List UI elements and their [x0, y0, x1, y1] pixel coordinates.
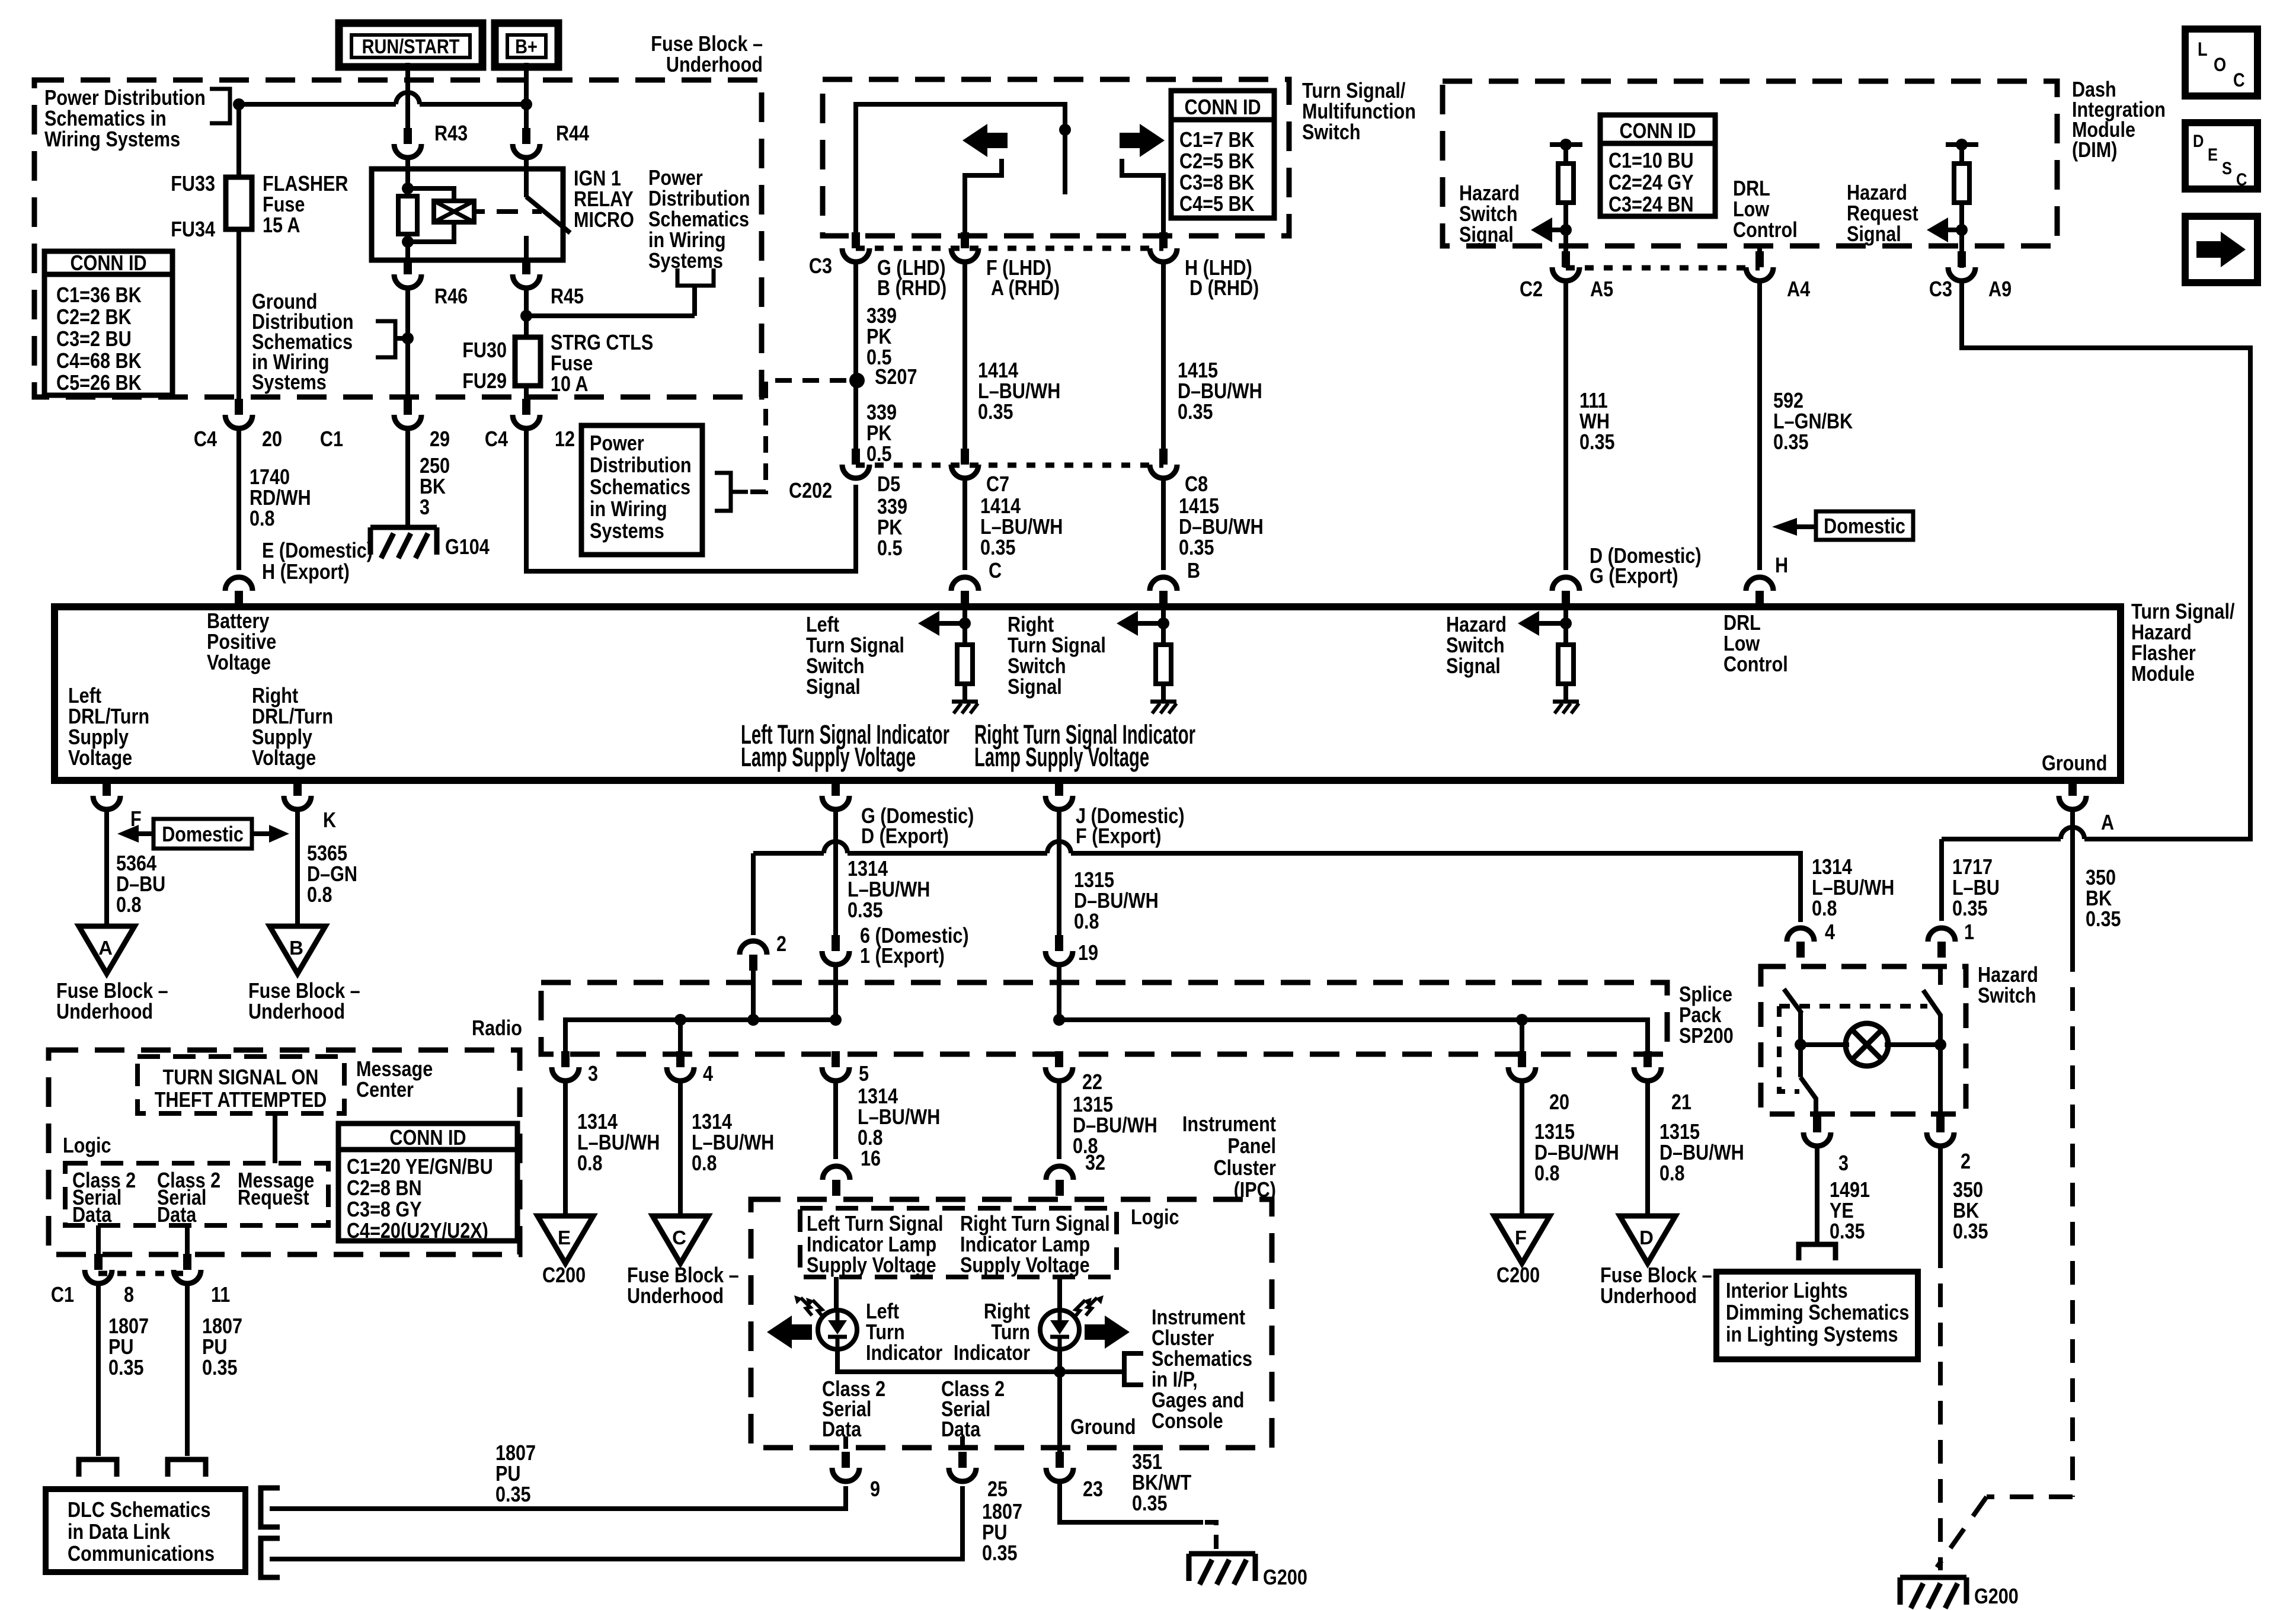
node relay coil top: [402, 183, 414, 194]
svg-text:19: 19: [1078, 942, 1098, 965]
svg-text:0.35: 0.35: [495, 1483, 531, 1507]
svg-text:BK: BK: [420, 475, 446, 499]
svg-text:Underhood: Underhood: [666, 53, 763, 77]
conn id table fuse block: [44, 251, 172, 395]
svg-text:Console: Console: [1152, 1410, 1223, 1433]
svg-text:C4=68 BK: C4=68 BK: [56, 350, 142, 373]
svg-text:PK: PK: [866, 422, 891, 446]
dotted connector row C3: [856, 246, 1163, 251]
svg-text:C200: C200: [542, 1264, 586, 1288]
relay coil box-X symbol: [434, 201, 474, 222]
svg-text:Domestic: Domestic: [1824, 515, 1905, 539]
svg-text:0.35: 0.35: [1132, 1492, 1168, 1516]
turn signal hazard flasher module box: [55, 607, 2121, 780]
svg-text:DRL/Turn: DRL/Turn: [68, 705, 149, 729]
svg-text:Fuse Block –: Fuse Block –: [1600, 1264, 1712, 1288]
svg-text:Left: Left: [866, 1300, 899, 1324]
connector module pin E: [225, 577, 252, 591]
arrow right turn switch signal: [1117, 611, 1138, 636]
svg-text:D–GN: D–GN: [307, 863, 357, 886]
svg-text:B (RHD): B (RHD): [877, 277, 946, 300]
svg-text:Right: Right: [252, 684, 298, 708]
connector hazard pin 2: [1927, 1132, 1954, 1146]
svg-text:250: 250: [420, 454, 450, 478]
svg-text:C1=20 YE/GN/BU: C1=20 YE/GN/BU: [347, 1156, 493, 1179]
svg-text:D–BU/WH: D–BU/WH: [1659, 1141, 1744, 1165]
arrow left turn indicator: [767, 1315, 792, 1349]
wire conn2 drop: [751, 853, 756, 935]
svg-text:Voltage: Voltage: [68, 747, 132, 770]
svg-text:Schematics: Schematics: [648, 208, 749, 232]
wire DIM A4 stub: [1757, 246, 1762, 254]
triangle connector A: [79, 926, 135, 974]
svg-text:0.35: 0.35: [1773, 431, 1809, 454]
hazard switch left pole lower blade: [1801, 1077, 1816, 1099]
svg-text:MICRO: MICRO: [574, 209, 634, 232]
connector radio C1 pin 8: [85, 1270, 112, 1283]
LED left turn indicator: [818, 1310, 857, 1349]
ground module pin B: [1150, 700, 1176, 704]
bracket instrument cluster schematics: [1124, 1353, 1143, 1385]
node B+ junction: [520, 98, 532, 110]
wire 350 BK module pin A: [2070, 807, 2075, 948]
connector splice pack 20: [1508, 1067, 1536, 1081]
wire resistor to A5: [1563, 203, 1568, 268]
svg-text:20: 20: [1549, 1091, 1569, 1115]
svg-text:22: 22: [1082, 1071, 1102, 1094]
radio logic dashed box: [65, 1163, 328, 1225]
inline plug pin8: [79, 1459, 117, 1477]
right turn contact: [1122, 159, 1163, 236]
svg-text:1 (Export): 1 (Export): [860, 945, 945, 968]
svg-text:0.35: 0.35: [202, 1356, 238, 1380]
svg-text:Systems: Systems: [590, 520, 664, 543]
wire flasher fuse feed down: [236, 104, 241, 178]
svg-text:339: 339: [877, 495, 907, 519]
svg-text:3: 3: [420, 496, 430, 520]
svg-text:G104: G104: [445, 536, 490, 559]
wire R43 to relay: [405, 155, 410, 172]
hazard switch left pole upper blade: [1784, 989, 1802, 1013]
triangle connector B: [270, 926, 325, 974]
conn id table radio: [338, 1124, 517, 1241]
connector module pin G: [822, 796, 849, 809]
svg-text:C8: C8: [1185, 473, 1208, 497]
svg-text:0.5: 0.5: [877, 537, 903, 561]
svg-text:FU30: FU30: [462, 339, 507, 363]
svg-text:D5: D5: [877, 473, 900, 497]
svg-text:C200: C200: [1496, 1264, 1540, 1288]
svg-text:C7: C7: [986, 473, 1009, 497]
triangle connector E: [538, 1216, 593, 1263]
svg-text:Instrument: Instrument: [1182, 1113, 1276, 1137]
bracket power distribution reference: [715, 473, 731, 511]
svg-text:4: 4: [703, 1062, 713, 1086]
connector pin 29 fuse block: [394, 415, 421, 428]
connector C3 pin G: [842, 248, 869, 262]
svg-text:Switch: Switch: [1008, 655, 1066, 678]
svg-text:1414: 1414: [980, 495, 1021, 518]
node relay coil bottom: [402, 236, 414, 248]
svg-text:C4: C4: [485, 428, 508, 452]
svg-text:Turn Signal/: Turn Signal/: [2131, 600, 2234, 624]
svg-text:Positive: Positive: [207, 630, 276, 654]
dashed link to C202: [750, 380, 856, 492]
ground module pin D: [1553, 700, 1579, 704]
svg-text:0.8: 0.8: [858, 1126, 883, 1150]
wire hazard pin2 to G200: [1938, 1144, 1943, 1244]
svg-text:H: H: [1775, 554, 1788, 578]
svg-text:1807: 1807: [108, 1315, 149, 1339]
svg-text:C2=24 GY: C2=24 GY: [1609, 171, 1694, 195]
hazard switch left pole wire: [1798, 1012, 1803, 1077]
svg-text:IGN 1: IGN 1: [574, 167, 621, 191]
right turn arrow: [1140, 124, 1165, 157]
conn id table multifunction switch: [1171, 91, 1274, 218]
svg-text:STRG CTLS: STRG CTLS: [551, 331, 653, 355]
bracket to power distribution note: [210, 89, 230, 123]
wire IPC 32 to LED: [1057, 1277, 1062, 1310]
svg-text:D–BU/WH: D–BU/WH: [1179, 516, 1264, 539]
wire B+ down to R44: [524, 63, 529, 137]
module pin D internals: [1563, 607, 1568, 645]
svg-text:BK: BK: [1953, 1199, 1979, 1223]
wire pullup2 to resistor: [1959, 145, 1964, 164]
svg-text:in Lighting Systems: in Lighting Systems: [1726, 1323, 1898, 1347]
wire 19 to splice bus: [1057, 962, 1061, 1020]
svg-text:2: 2: [1961, 1150, 1971, 1174]
relay switch common: [524, 172, 529, 197]
svg-text:C2=5 BK: C2=5 BK: [1179, 150, 1255, 174]
svg-text:Signal: Signal: [1847, 223, 1901, 247]
svg-text:B+: B+: [515, 35, 538, 58]
svg-text:PK: PK: [866, 325, 891, 349]
wire 592 L-GN/BK A4 to module H: [1757, 279, 1762, 570]
label Domestic callout (left): [154, 819, 252, 849]
svg-text:C2: C2: [1520, 278, 1543, 302]
svg-text:C1: C1: [320, 428, 343, 452]
resistor hazard request signal: [1954, 164, 1969, 203]
wire conn2 to bus: [751, 971, 756, 1020]
node bus tap conn20: [1516, 1014, 1528, 1026]
svg-text:Hazard: Hazard: [1978, 964, 2038, 987]
connector IPC pin 32: [1046, 1166, 1073, 1180]
wire IPC pin9 stub: [843, 1436, 848, 1449]
svg-text:D: D: [1639, 1227, 1654, 1249]
connector splice pack 5: [822, 1067, 849, 1081]
node bus end pin G wire: [830, 1014, 842, 1026]
svg-text:Communications: Communications: [68, 1542, 215, 1566]
svg-text:0.35: 0.35: [1178, 401, 1213, 424]
svg-text:1415: 1415: [1179, 495, 1219, 518]
left turn contact: [965, 159, 1002, 236]
relay switch blade: [526, 197, 570, 233]
svg-text:in I/P,: in I/P,: [1152, 1368, 1198, 1392]
svg-text:0.35: 0.35: [982, 1542, 1018, 1566]
connector splice pack 22: [1045, 1067, 1073, 1081]
wire relay coil loop: [408, 188, 454, 201]
wire pin8 down: [96, 1281, 101, 1456]
connector R44: [513, 144, 540, 158]
wire conn22 to IPC32: [1057, 1078, 1061, 1159]
svg-text:350: 350: [2086, 866, 2116, 890]
svg-text:Turn: Turn: [866, 1321, 905, 1345]
connector C202 pin C8: [1150, 465, 1177, 478]
resistor module pin D: [1558, 645, 1574, 684]
connector splice pack 21: [1634, 1067, 1661, 1081]
node bus tap conn4: [674, 1014, 686, 1026]
connector C202 pin D5: [842, 465, 869, 478]
svg-text:R45: R45: [551, 285, 584, 309]
svg-text:1315: 1315: [1073, 1093, 1113, 1117]
svg-text:9: 9: [870, 1478, 880, 1502]
svg-text:L–BU/WH: L–BU/WH: [692, 1131, 774, 1155]
connector IPC pin 16: [823, 1166, 850, 1180]
svg-text:C202: C202: [789, 479, 832, 503]
svg-text:32: 32: [1085, 1151, 1105, 1175]
svg-text:L: L: [2198, 39, 2208, 60]
svg-text:Multifunction: Multifunction: [1302, 100, 1416, 124]
svg-text:Fuse: Fuse: [551, 352, 593, 376]
power distribution schematics reference box: [581, 425, 702, 555]
connector splice pack 2: [740, 941, 767, 955]
svg-text:0.35: 0.35: [980, 536, 1016, 560]
wire hazard pin3 down: [1815, 1144, 1819, 1243]
svg-text:11: 11: [211, 1283, 230, 1307]
connector radio C1 pin 11: [174, 1270, 201, 1283]
svg-text:TURN SIGNAL ON: TURN SIGNAL ON: [163, 1066, 319, 1090]
svg-text:Switch: Switch: [1978, 984, 2036, 1008]
svg-text:Lamp Supply Voltage: Lamp Supply Voltage: [974, 743, 1149, 773]
wire 1415 to module pin B: [1161, 476, 1166, 570]
svg-text:Dimming Schematics: Dimming Schematics: [1726, 1301, 1909, 1325]
ipc supply voltage inner dashed box: [800, 1208, 1117, 1277]
wire radio pin8: [96, 1225, 101, 1256]
svg-text:D–BU/WH: D–BU/WH: [1074, 889, 1159, 913]
hazard switch left pole exit: [1814, 1097, 1818, 1117]
svg-text:Message: Message: [356, 1058, 433, 1081]
wire pullup to resistor: [1563, 145, 1568, 164]
svg-text:Turn Signal: Turn Signal: [806, 634, 904, 658]
svg-text:1314: 1314: [577, 1110, 618, 1134]
svg-text:20: 20: [262, 428, 282, 452]
module pin B internals: [1161, 607, 1166, 645]
node hazard request tap: [1956, 224, 1968, 236]
triangle connector F: [1494, 1216, 1550, 1263]
svg-text:L–BU/WH: L–BU/WH: [858, 1106, 940, 1129]
wire conn21 to triangle D: [1645, 1078, 1650, 1216]
svg-text:L–BU/WH: L–BU/WH: [980, 516, 1063, 539]
svg-text:C: C: [2236, 169, 2247, 189]
svg-text:C1: C1: [51, 1283, 74, 1307]
svg-text:Interior Lights: Interior Lights: [1726, 1279, 1848, 1303]
svg-text:Fuse Block –: Fuse Block –: [248, 980, 360, 1003]
connector DIM A4: [1746, 267, 1773, 281]
svg-text:A: A: [98, 937, 113, 959]
svg-text:L–BU/WH: L–BU/WH: [978, 380, 1060, 404]
node turn switch blade pivot: [1059, 124, 1071, 136]
wire 1740 RD/WH to module pin E: [236, 426, 241, 570]
svg-text:Control: Control: [1733, 219, 1798, 242]
svg-text:Distribution: Distribution: [590, 454, 692, 478]
svg-text:2: 2: [776, 933, 786, 956]
svg-text:1314: 1314: [858, 1085, 898, 1109]
svg-text:0.8: 0.8: [1534, 1162, 1560, 1186]
svg-text:Battery: Battery: [207, 610, 270, 633]
inline plug hazard pin3: [1799, 1244, 1835, 1260]
turn signal multifunction switch dashed box: [823, 79, 1289, 236]
svg-text:PU: PU: [202, 1336, 227, 1359]
svg-text:C2=8 BN: C2=8 BN: [347, 1177, 422, 1201]
svg-text:C: C: [672, 1227, 686, 1249]
connector IPC pin 25: [949, 1468, 976, 1481]
svg-text:Domestic: Domestic: [162, 823, 244, 847]
bracket DLC lower: [261, 1538, 280, 1577]
instrument panel cluster dashed box: [751, 1199, 1272, 1448]
svg-text:L–BU/WH: L–BU/WH: [848, 878, 930, 902]
svg-text:R44: R44: [556, 122, 589, 146]
wire 111 WH A5 to module D: [1563, 279, 1568, 570]
svg-text:Switch: Switch: [1446, 634, 1505, 658]
ground module pin C: [952, 700, 978, 704]
bracket under power distribution note (right col): [677, 268, 714, 286]
wire resistor2 to A9: [1959, 203, 1964, 268]
svg-text:Indicator: Indicator: [866, 1342, 942, 1365]
wire 1414 upper: [962, 260, 967, 450]
ground G200 (IPC): [1189, 1551, 1255, 1557]
svg-text:S207: S207: [875, 366, 917, 389]
svg-text:0.8: 0.8: [116, 894, 142, 917]
resistor hazard switch signal: [1558, 164, 1574, 203]
svg-text:15 A: 15 A: [263, 214, 300, 238]
inline plug pin11: [168, 1459, 206, 1477]
LED right turn indicator: [1040, 1310, 1079, 1349]
connector module pin A: [2059, 796, 2086, 809]
wire conn20 to triangle F: [1520, 1078, 1524, 1216]
node splice at flasher feed: [233, 98, 245, 110]
svg-text:C3: C3: [809, 255, 832, 279]
svg-text:Schematics: Schematics: [590, 476, 690, 500]
svg-text:Right: Right: [984, 1300, 1030, 1324]
dash integration module dashed box: [1443, 81, 2057, 246]
right-arrow box: [2185, 216, 2257, 283]
connector module pin B: [1150, 577, 1177, 591]
svg-text:Supply Voltage: Supply Voltage: [960, 1254, 1090, 1278]
fuse FU33/FU34 FLASHER 15A: [226, 177, 252, 229]
svg-text:F: F: [1515, 1227, 1527, 1249]
wire R45 tap to bracket: [526, 313, 695, 318]
dotted connector row C2 DIM: [1566, 265, 1760, 271]
ground G200 (right): [1900, 1575, 1966, 1580]
wire conn5 to IPC16: [833, 1078, 838, 1159]
arrow right turn indicator: [1105, 1315, 1130, 1349]
svg-text:PU: PU: [495, 1462, 520, 1486]
B+ battery feed box: [495, 23, 558, 67]
connector hazard pin 4: [1787, 928, 1814, 942]
svg-text:1740: 1740: [250, 466, 290, 489]
node hazard lamp left: [1795, 1039, 1806, 1051]
wire pin12 to C202 D5: [526, 426, 856, 571]
svg-text:0.8: 0.8: [1659, 1162, 1685, 1186]
hazard switch dashed box: [1761, 966, 1966, 1114]
wire A9 to hazard pin1 run: [1962, 279, 2250, 839]
wire conn3 to triangle E: [563, 1078, 568, 1216]
svg-text:12: 12: [555, 428, 575, 452]
wire pin J down: [1057, 807, 1061, 941]
splice pack SP200 dashed box: [541, 982, 1667, 1054]
svg-text:Hazard: Hazard: [1459, 182, 1520, 206]
svg-text:Supply: Supply: [252, 726, 312, 750]
svg-text:Cluster: Cluster: [1214, 1157, 1276, 1180]
svg-text:0.35: 0.35: [848, 899, 883, 923]
connector C202 pin C7: [951, 465, 978, 478]
wire 5364 to fuse block A: [104, 807, 109, 926]
conn id table DIM: [1600, 115, 1715, 216]
svg-text:3: 3: [588, 1062, 598, 1086]
svg-text:Radio: Radio: [472, 1017, 522, 1041]
svg-text:Panel: Panel: [1227, 1135, 1276, 1158]
wire radio pin11: [185, 1225, 190, 1256]
svg-text:Supply Voltage: Supply Voltage: [807, 1254, 936, 1278]
svg-text:Lamp Supply Voltage: Lamp Supply Voltage: [741, 743, 916, 773]
wire message request: [273, 1113, 277, 1163]
wire IPC pin25 stub: [960, 1436, 965, 1449]
wire 5365 to fuse block B: [295, 807, 300, 926]
svg-text:B: B: [1187, 559, 1200, 583]
connector R46: [394, 274, 421, 288]
wire bus to conn4: [678, 1020, 683, 1052]
svg-text:DRL: DRL: [1723, 612, 1761, 635]
svg-text:O: O: [2214, 55, 2226, 76]
svg-text:Turn: Turn: [991, 1321, 1030, 1345]
connector pin 20 fuse block: [225, 415, 252, 428]
svg-text:DRL: DRL: [1733, 177, 1770, 201]
svg-text:L–BU/WH: L–BU/WH: [1812, 876, 1894, 900]
svg-text:Signal: Signal: [1459, 223, 1514, 247]
svg-text:C3=8 GY: C3=8 GY: [347, 1198, 422, 1222]
wire R46 down: [405, 260, 410, 264]
node hazard switch signal tap: [1560, 224, 1572, 236]
svg-text:Instrument: Instrument: [1152, 1306, 1245, 1330]
fuse FU30/FU29 STRG CTLS 10A: [515, 337, 541, 386]
connector C3 pin H: [1150, 248, 1177, 262]
dotted connector row C202: [856, 463, 1163, 468]
svg-text:C3=8 BK: C3=8 BK: [1179, 171, 1255, 195]
svg-text:Hazard: Hazard: [1446, 613, 1507, 637]
wire res C to ground: [962, 684, 967, 700]
relay actuation dashed link: [477, 209, 485, 214]
svg-text:A4: A4: [1787, 278, 1810, 302]
svg-text:29: 29: [430, 428, 450, 452]
svg-text:1807: 1807: [982, 1500, 1022, 1524]
connector DIM A9: [1948, 267, 1975, 281]
svg-text:Fuse Block –: Fuse Block –: [56, 980, 168, 1003]
svg-text:D–BU/WH: D–BU/WH: [1178, 380, 1262, 404]
svg-text:FLASHER: FLASHER: [263, 172, 348, 196]
svg-text:RD/WH: RD/WH: [250, 486, 311, 510]
svg-text:Power: Power: [648, 167, 703, 190]
wire STRG fuse down: [524, 386, 529, 399]
svg-text:Indicator: Indicator: [954, 1342, 1030, 1365]
svg-text:CONN ID: CONN ID: [389, 1126, 466, 1150]
dotted connector row radio C1: [98, 1271, 187, 1276]
svg-text:Hazard: Hazard: [2131, 621, 2192, 645]
svg-text:PU: PU: [108, 1336, 133, 1359]
svg-text:1315: 1315: [1659, 1121, 1700, 1144]
wire 1414 to module pin C: [962, 476, 967, 570]
svg-text:C3=2 BU: C3=2 BU: [56, 328, 132, 351]
svg-text:Request: Request: [1847, 202, 1918, 226]
